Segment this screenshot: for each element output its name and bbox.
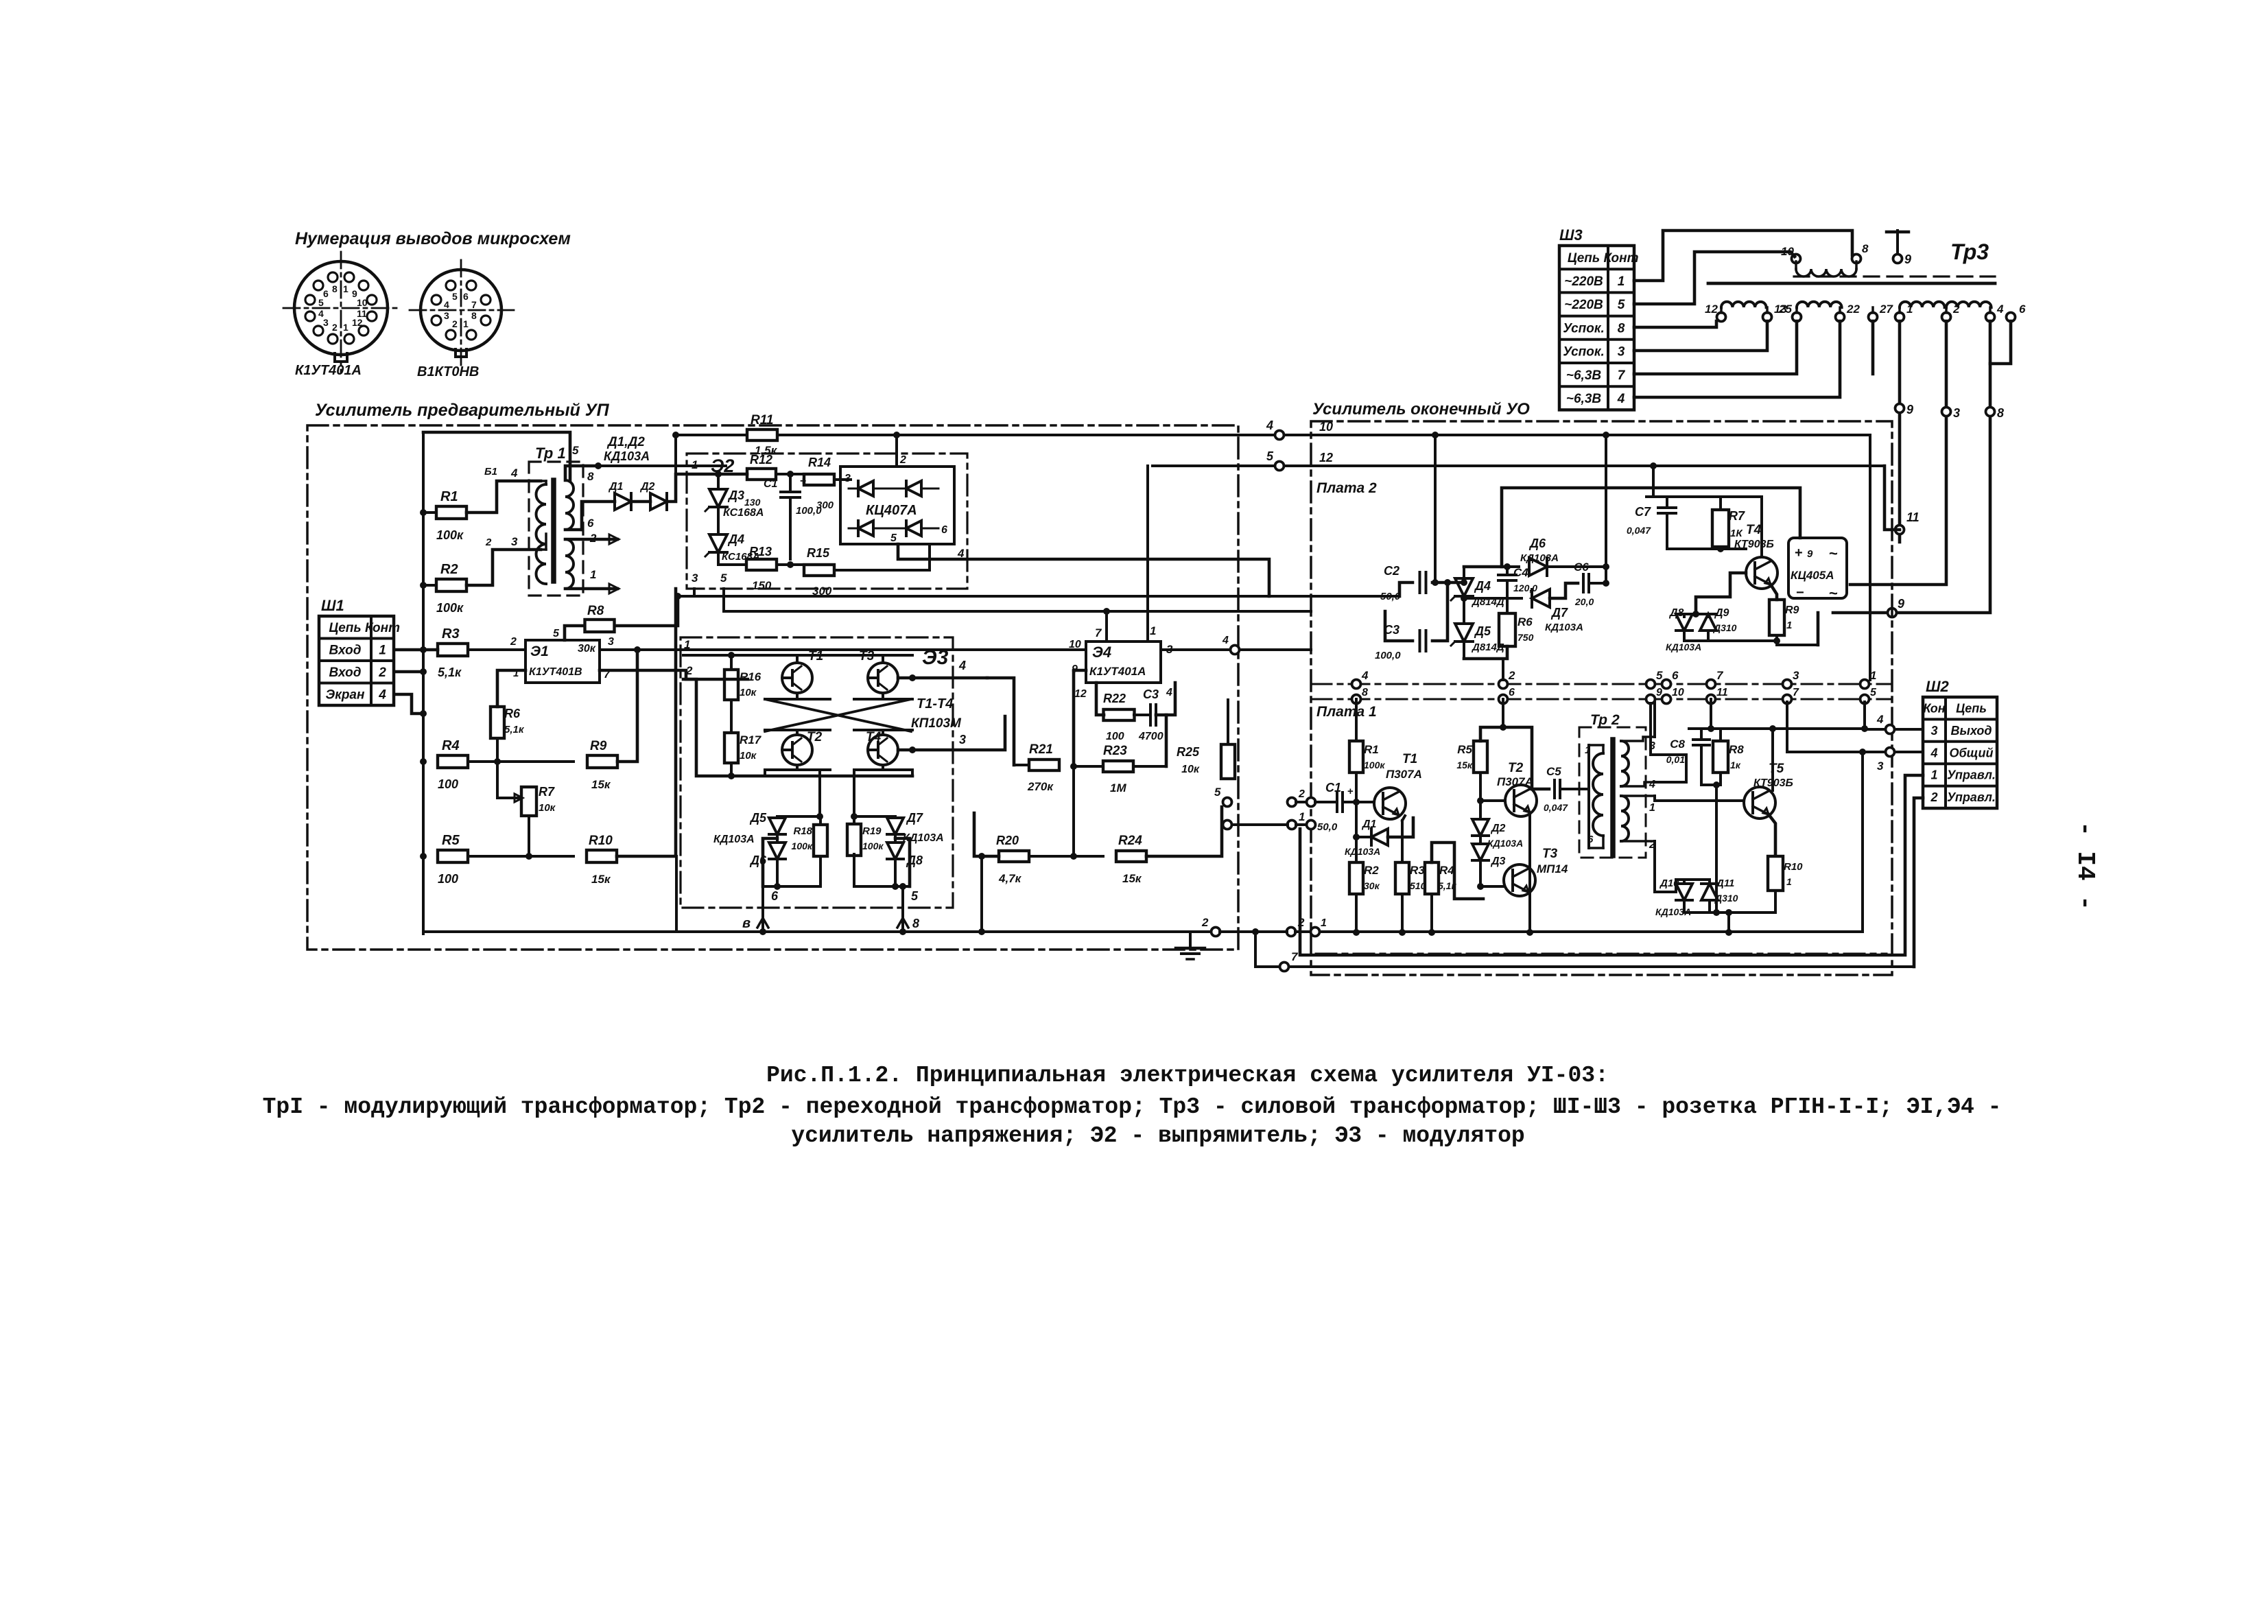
svg-text:~: ~ bbox=[1829, 585, 1838, 602]
svg-text:Общий: Общий bbox=[1950, 746, 1994, 760]
svg-text:3: 3 bbox=[1618, 345, 1625, 360]
svg-text:Д1: Д1 bbox=[1361, 819, 1377, 830]
svg-text:Д2: Д2 bbox=[639, 481, 655, 493]
svg-text:R2: R2 bbox=[1364, 864, 1379, 877]
svg-text:С3: С3 bbox=[1384, 623, 1399, 637]
svg-text:Т2: Т2 bbox=[807, 730, 823, 744]
svg-text:8: 8 bbox=[1862, 242, 1869, 255]
svg-text:Д2: Д2 bbox=[1490, 823, 1506, 834]
svg-text:+: + bbox=[1795, 545, 1803, 561]
svg-text:R13: R13 bbox=[749, 545, 772, 558]
svg-text:Э4: Э4 bbox=[1092, 644, 1111, 661]
svg-text:КД103А: КД103А bbox=[1545, 622, 1583, 633]
svg-text:4: 4 bbox=[1996, 303, 2004, 316]
svg-text:в: в bbox=[742, 916, 751, 931]
svg-text:1: 1 bbox=[1649, 802, 1655, 814]
svg-text:- I4 -: - I4 - bbox=[2071, 821, 2099, 910]
svg-text:4: 4 bbox=[318, 308, 324, 319]
svg-text:Т1: Т1 bbox=[1402, 752, 1417, 766]
svg-text:6: 6 bbox=[1672, 669, 1679, 682]
svg-text:3: 3 bbox=[1877, 760, 1884, 773]
svg-text:5: 5 bbox=[911, 889, 919, 903]
svg-text:Вход: Вход bbox=[329, 643, 362, 657]
svg-text:Конт: Конт bbox=[1604, 251, 1639, 266]
svg-text:12: 12 bbox=[1074, 688, 1087, 700]
svg-text:1: 1 bbox=[1786, 876, 1792, 887]
svg-text:Д7: Д7 bbox=[906, 811, 923, 825]
svg-text:Ш3: Ш3 bbox=[1559, 226, 1583, 244]
svg-text:Э2: Э2 bbox=[711, 456, 734, 476]
svg-text:100: 100 bbox=[1106, 731, 1124, 742]
svg-text:5: 5 bbox=[572, 444, 579, 457]
svg-text:12: 12 bbox=[352, 317, 363, 328]
svg-text:С1: С1 bbox=[764, 478, 778, 490]
svg-text:Плата 1: Плата 1 bbox=[1316, 704, 1377, 720]
svg-text:50,0: 50,0 bbox=[1380, 591, 1401, 602]
svg-text:1: 1 bbox=[1150, 624, 1156, 637]
svg-text:R10: R10 bbox=[1784, 861, 1803, 873]
svg-text:3: 3 bbox=[608, 636, 614, 648]
svg-text:1к: 1к bbox=[1730, 760, 1741, 770]
svg-text:3: 3 bbox=[959, 733, 966, 746]
svg-text:4: 4 bbox=[1361, 669, 1369, 682]
svg-text:750: 750 bbox=[1517, 632, 1534, 643]
svg-text:120,0: 120,0 bbox=[1513, 582, 1537, 593]
svg-text:Успок.: Успок. bbox=[1563, 345, 1605, 360]
svg-text:2: 2 bbox=[1930, 790, 1937, 804]
svg-text:Экран: Экран bbox=[326, 687, 365, 702]
svg-text:3: 3 bbox=[444, 310, 449, 321]
svg-text:8: 8 bbox=[471, 310, 477, 321]
svg-text:0,047: 0,047 bbox=[1627, 525, 1651, 536]
svg-text:10к: 10к bbox=[740, 750, 757, 762]
svg-text:С3: С3 bbox=[1143, 687, 1159, 701]
svg-text:R1: R1 bbox=[1364, 743, 1379, 756]
svg-text:Усилитель предварительный УП: Усилитель предварительный УП bbox=[315, 401, 610, 420]
svg-text:7: 7 bbox=[1716, 669, 1724, 682]
svg-text:6: 6 bbox=[1509, 687, 1515, 698]
svg-text:3: 3 bbox=[1793, 669, 1799, 682]
svg-text:R11: R11 bbox=[751, 413, 773, 427]
svg-text:R17: R17 bbox=[740, 733, 762, 746]
svg-text:Усилитель оконечный УО: Усилитель оконечный УО bbox=[1312, 400, 1530, 419]
svg-text:8: 8 bbox=[1618, 321, 1625, 336]
svg-text:усилитель напряжения; Э2 - вып: усилитель напряжения; Э2 - выпрямитель; … bbox=[791, 1123, 1524, 1149]
svg-text:1: 1 bbox=[590, 568, 596, 581]
svg-text:R2: R2 bbox=[440, 562, 458, 577]
svg-text:6: 6 bbox=[2019, 303, 2026, 316]
svg-text:4,7к: 4,7к bbox=[998, 872, 1022, 885]
svg-text:R8: R8 bbox=[1729, 743, 1744, 756]
svg-text:12: 12 bbox=[1705, 303, 1718, 316]
svg-text:КД103А: КД103А bbox=[1520, 552, 1559, 564]
svg-text:1: 1 bbox=[343, 283, 349, 294]
svg-text:6: 6 bbox=[941, 524, 947, 536]
svg-text:7: 7 bbox=[471, 299, 477, 310]
svg-text:5: 5 bbox=[1656, 669, 1663, 682]
svg-text:2: 2 bbox=[452, 318, 458, 329]
svg-text:0,047: 0,047 bbox=[1544, 802, 1568, 813]
svg-text:5: 5 bbox=[1214, 786, 1221, 799]
svg-text:R4: R4 bbox=[442, 738, 460, 753]
svg-text:Э3: Э3 bbox=[922, 646, 949, 669]
svg-text:Д11: Д11 bbox=[1715, 878, 1734, 889]
svg-text:Т3: Т3 bbox=[859, 649, 875, 663]
svg-text:22: 22 bbox=[1846, 303, 1860, 316]
svg-text:5: 5 bbox=[1618, 298, 1625, 312]
svg-text:1М: 1М bbox=[1110, 781, 1126, 795]
svg-text:10: 10 bbox=[1069, 639, 1081, 650]
svg-text:1: 1 bbox=[1930, 768, 1937, 782]
svg-text:3: 3 bbox=[1930, 724, 1937, 738]
svg-text:Д310: Д310 bbox=[1714, 893, 1738, 904]
svg-text:2: 2 bbox=[332, 322, 338, 333]
svg-text:Выход: Выход bbox=[1950, 724, 1992, 738]
svg-text:Т5: Т5 bbox=[1769, 762, 1784, 776]
svg-text:Цепь: Цепь bbox=[1568, 251, 1600, 266]
svg-text:КД103А: КД103А bbox=[713, 834, 755, 845]
svg-text:1: 1 bbox=[692, 458, 698, 471]
svg-text:15к: 15к bbox=[1456, 760, 1473, 770]
svg-text:Д1,Д2: Д1,Д2 bbox=[606, 435, 645, 449]
svg-text:100к: 100к bbox=[436, 601, 464, 615]
svg-text:0,01: 0,01 bbox=[1666, 754, 1685, 765]
svg-text:К1УТ401А: К1УТ401А bbox=[1089, 665, 1146, 678]
svg-text:~6,3В: ~6,3В bbox=[1566, 368, 1602, 383]
svg-text:R7: R7 bbox=[539, 785, 555, 799]
svg-text:Т4: Т4 bbox=[1746, 523, 1762, 537]
svg-text:6: 6 bbox=[587, 517, 594, 530]
svg-text:10: 10 bbox=[357, 297, 368, 308]
svg-text:4: 4 bbox=[378, 687, 386, 702]
svg-text:1: 1 bbox=[463, 318, 469, 329]
svg-text:С1: С1 bbox=[1325, 781, 1341, 795]
svg-text:−: − bbox=[1796, 585, 1804, 600]
svg-text:+: + bbox=[800, 475, 806, 487]
svg-text:1: 1 bbox=[1786, 620, 1792, 631]
svg-text:Т4: Т4 bbox=[866, 730, 882, 744]
svg-text:Т3: Т3 bbox=[1542, 847, 1558, 861]
svg-text:12: 12 bbox=[1319, 451, 1333, 464]
svg-text:Тр 1: Тр 1 bbox=[535, 445, 566, 462]
svg-text:2: 2 bbox=[1508, 669, 1515, 682]
svg-text:7: 7 bbox=[1095, 626, 1102, 639]
svg-text:10: 10 bbox=[1672, 687, 1684, 698]
svg-text:6: 6 bbox=[771, 889, 779, 903]
svg-text:1: 1 bbox=[1321, 917, 1327, 929]
svg-text:R3: R3 bbox=[1410, 864, 1425, 877]
svg-text:9: 9 bbox=[1898, 597, 1904, 611]
svg-text:8: 8 bbox=[1997, 406, 2004, 420]
svg-text:100к: 100к bbox=[1364, 760, 1385, 770]
svg-text:С2: С2 bbox=[1384, 564, 1399, 578]
svg-text:КС168А: КС168А bbox=[723, 507, 764, 519]
svg-text:5: 5 bbox=[1870, 687, 1877, 698]
svg-text:15к: 15к bbox=[591, 778, 611, 791]
svg-text:4: 4 bbox=[1617, 392, 1625, 406]
svg-text:Д5: Д5 bbox=[749, 811, 767, 825]
svg-text:11: 11 bbox=[1716, 687, 1728, 698]
svg-text:R7: R7 bbox=[1729, 509, 1745, 523]
svg-text:R6: R6 bbox=[504, 707, 521, 720]
svg-text:КЦ407А: КЦ407А bbox=[866, 503, 917, 518]
svg-text:С8: С8 bbox=[1670, 738, 1685, 751]
svg-text:1К: 1К bbox=[1730, 528, 1743, 539]
svg-text:8: 8 bbox=[587, 470, 594, 483]
svg-text:R21: R21 bbox=[1029, 742, 1053, 757]
svg-text:Плата 2: Плата 2 bbox=[1316, 480, 1377, 496]
svg-text:15к: 15к bbox=[1122, 872, 1142, 885]
svg-text:R24: R24 bbox=[1118, 834, 1142, 848]
svg-text:Ш1: Ш1 bbox=[321, 597, 344, 614]
svg-text:4700: 4700 bbox=[1138, 731, 1163, 742]
svg-text:5,1к: 5,1к bbox=[438, 666, 462, 679]
svg-text:25: 25 bbox=[1778, 303, 1792, 316]
svg-text:2: 2 bbox=[485, 537, 492, 548]
svg-text:R4: R4 bbox=[1439, 864, 1454, 877]
svg-text:7: 7 bbox=[1291, 950, 1299, 963]
svg-text:Цепь: Цепь bbox=[1956, 702, 1987, 716]
svg-text:3: 3 bbox=[511, 535, 518, 548]
svg-text:30к: 30к bbox=[578, 643, 596, 655]
svg-text:50,0: 50,0 bbox=[1317, 821, 1338, 833]
svg-text:100,0: 100,0 bbox=[1375, 650, 1401, 661]
svg-text:КП103М: КП103М bbox=[911, 716, 962, 731]
svg-text:4: 4 bbox=[958, 659, 966, 672]
svg-text:9: 9 bbox=[1904, 252, 1911, 266]
svg-text:1: 1 bbox=[1299, 810, 1305, 823]
svg-text:Тр 2: Тр 2 bbox=[1590, 712, 1620, 728]
svg-text:R25: R25 bbox=[1177, 745, 1200, 759]
svg-text:100к: 100к bbox=[792, 840, 813, 851]
svg-text:2: 2 bbox=[685, 664, 693, 677]
svg-text:R10: R10 bbox=[589, 834, 613, 848]
svg-text:С5: С5 bbox=[1546, 765, 1561, 778]
svg-text:5,1к: 5,1к bbox=[504, 724, 525, 735]
svg-text:5: 5 bbox=[452, 291, 458, 302]
svg-text:Управл.: Управл. bbox=[1947, 768, 1996, 782]
svg-text:R9: R9 bbox=[590, 739, 607, 753]
svg-text:С6: С6 bbox=[1574, 561, 1589, 574]
svg-text:R3: R3 bbox=[442, 626, 460, 642]
svg-text:10к: 10к bbox=[740, 687, 757, 698]
svg-text:R15: R15 bbox=[807, 546, 830, 560]
svg-text:2: 2 bbox=[1952, 303, 1960, 316]
svg-text:2: 2 bbox=[899, 454, 906, 466]
svg-text:4: 4 bbox=[510, 467, 518, 480]
svg-text:Вход: Вход bbox=[329, 666, 362, 680]
svg-text:8: 8 bbox=[1362, 687, 1368, 698]
svg-text:R9: R9 bbox=[1785, 604, 1799, 616]
svg-text:1: 1 bbox=[1906, 303, 1913, 316]
svg-text:Д3: Д3 bbox=[727, 489, 744, 502]
svg-text:5: 5 bbox=[1266, 449, 1274, 463]
svg-text:Т2: Т2 bbox=[1508, 761, 1524, 775]
svg-text:R1: R1 bbox=[440, 489, 458, 504]
svg-text:6: 6 bbox=[463, 291, 469, 302]
svg-text:~220В: ~220В bbox=[1564, 298, 1603, 312]
svg-text:КД103А: КД103А bbox=[604, 449, 650, 463]
svg-text:КД103А: КД103А bbox=[1666, 642, 1701, 652]
svg-text:5: 5 bbox=[553, 628, 560, 639]
svg-text:15к: 15к bbox=[591, 873, 611, 886]
svg-text:2: 2 bbox=[1298, 788, 1305, 800]
svg-text:8: 8 bbox=[332, 283, 338, 294]
svg-text:100к: 100к bbox=[436, 528, 464, 542]
svg-text:5: 5 bbox=[890, 532, 897, 544]
svg-text:R23: R23 bbox=[1103, 744, 1127, 758]
svg-text:ТрI - модулирующий трансформат: ТрI - модулирующий трансформатор; Тр2 - … bbox=[263, 1094, 2002, 1120]
svg-text:Д3: Д3 bbox=[1490, 856, 1506, 867]
svg-text:9: 9 bbox=[1807, 548, 1813, 560]
svg-text:2: 2 bbox=[510, 636, 517, 648]
svg-text:R14: R14 bbox=[808, 456, 831, 469]
svg-text:Успок.: Успок. bbox=[1563, 321, 1605, 336]
svg-text:Д9: Д9 bbox=[1714, 607, 1729, 619]
svg-text:В1КТ0НВ: В1КТ0НВ bbox=[417, 364, 479, 379]
svg-text:7: 7 bbox=[1618, 368, 1626, 383]
svg-text:Э1: Э1 bbox=[530, 644, 549, 659]
svg-text:100: 100 bbox=[438, 872, 458, 886]
svg-text:3: 3 bbox=[323, 317, 329, 328]
svg-text:Д4: Д4 bbox=[1474, 579, 1491, 593]
svg-text:R19: R19 bbox=[862, 825, 882, 837]
svg-text:Д1: Д1 bbox=[608, 481, 624, 493]
svg-text:5: 5 bbox=[720, 572, 727, 585]
svg-text:20,0: 20,0 bbox=[1574, 596, 1594, 607]
svg-text:130: 130 bbox=[744, 497, 761, 508]
svg-text:R20: R20 bbox=[996, 834, 1019, 847]
svg-text:Ш2: Ш2 bbox=[1926, 678, 1950, 695]
svg-text:30к: 30к bbox=[1364, 880, 1380, 891]
svg-text:4: 4 bbox=[1930, 746, 1937, 760]
svg-text:Д310: Д310 bbox=[1713, 622, 1737, 633]
svg-text:Рис.П.1.2. Принципиальная элек: Рис.П.1.2. Принципиальная электрическая … bbox=[766, 1063, 1609, 1088]
svg-text:100: 100 bbox=[438, 777, 458, 791]
svg-text:100,0: 100,0 bbox=[796, 505, 822, 517]
svg-text:К1УТ401В: К1УТ401В bbox=[529, 666, 582, 678]
svg-text:Д8: Д8 bbox=[1668, 607, 1684, 619]
svg-text:С7: С7 bbox=[1635, 505, 1651, 519]
svg-text:~6,3В: ~6,3В bbox=[1566, 392, 1602, 406]
svg-text:КЦ405А: КЦ405А bbox=[1791, 569, 1834, 582]
svg-text:П307А: П307А bbox=[1386, 768, 1422, 781]
svg-text:11: 11 bbox=[1906, 510, 1919, 524]
svg-text:R5: R5 bbox=[1457, 743, 1472, 756]
svg-text:9: 9 bbox=[1906, 403, 1913, 416]
svg-text:1: 1 bbox=[343, 322, 349, 333]
svg-text:4: 4 bbox=[1266, 419, 1273, 432]
svg-text:4: 4 bbox=[1222, 635, 1229, 646]
svg-text:27: 27 bbox=[1879, 303, 1893, 316]
svg-text:3: 3 bbox=[1953, 406, 1960, 420]
svg-text:10к: 10к bbox=[539, 802, 556, 814]
svg-text:~: ~ bbox=[1829, 545, 1838, 562]
svg-text:+: + bbox=[1347, 786, 1354, 797]
svg-text:150: 150 bbox=[752, 579, 772, 592]
svg-text:2: 2 bbox=[1201, 916, 1209, 929]
svg-text:МП14: МП14 bbox=[1537, 862, 1568, 875]
svg-text:4: 4 bbox=[1649, 779, 1655, 790]
svg-text:1: 1 bbox=[684, 638, 690, 651]
svg-text:R12: R12 bbox=[750, 453, 772, 467]
svg-text:КД103А: КД103А bbox=[1487, 838, 1523, 849]
svg-text:4: 4 bbox=[444, 299, 449, 310]
svg-text:Конт: Конт bbox=[365, 621, 400, 635]
svg-text:R22: R22 bbox=[1103, 692, 1126, 705]
svg-text:R16: R16 bbox=[740, 670, 761, 683]
svg-text:4: 4 bbox=[1166, 687, 1172, 698]
svg-text:К1УТ401А: К1УТ401А bbox=[295, 363, 362, 378]
svg-text:Управл.: Управл. bbox=[1947, 790, 1996, 804]
svg-text:R18: R18 bbox=[793, 825, 812, 837]
svg-text:Т1: Т1 bbox=[808, 649, 823, 663]
svg-text:10к: 10к bbox=[1181, 764, 1200, 775]
svg-text:R5: R5 bbox=[442, 833, 460, 848]
svg-text:Кон: Кон bbox=[1923, 702, 1945, 716]
svg-text:8: 8 bbox=[912, 917, 919, 930]
svg-text:R8: R8 bbox=[587, 604, 604, 618]
svg-text:Д7: Д7 bbox=[1550, 606, 1568, 620]
svg-text:100к: 100к bbox=[862, 840, 884, 851]
svg-text:Тр3: Тр3 bbox=[1950, 239, 1989, 264]
svg-text:1: 1 bbox=[379, 643, 386, 657]
svg-text:1: 1 bbox=[1618, 274, 1625, 289]
svg-text:КД103А: КД103А bbox=[1345, 846, 1380, 857]
svg-text:Нумерация выводов микросхем: Нумерация выводов микросхем bbox=[295, 229, 571, 248]
svg-text:7: 7 bbox=[1793, 687, 1799, 698]
svg-text:6: 6 bbox=[323, 288, 329, 299]
svg-text:~220В: ~220В bbox=[1564, 274, 1603, 289]
svg-text:270к: 270к bbox=[1027, 780, 1054, 793]
svg-text:Т1-Т4: Т1-Т4 bbox=[917, 696, 953, 711]
svg-text:4: 4 bbox=[1876, 713, 1884, 726]
svg-text:2: 2 bbox=[378, 666, 386, 680]
svg-text:R6: R6 bbox=[1517, 615, 1533, 628]
svg-text:Д6: Д6 bbox=[1528, 537, 1546, 550]
svg-text:Цепь: Цепь bbox=[329, 621, 361, 635]
svg-text:Д4: Д4 bbox=[727, 532, 744, 546]
svg-text:3: 3 bbox=[692, 572, 698, 585]
svg-text:Д5: Д5 bbox=[1474, 624, 1491, 638]
svg-text:Б1: Б1 bbox=[484, 466, 497, 478]
